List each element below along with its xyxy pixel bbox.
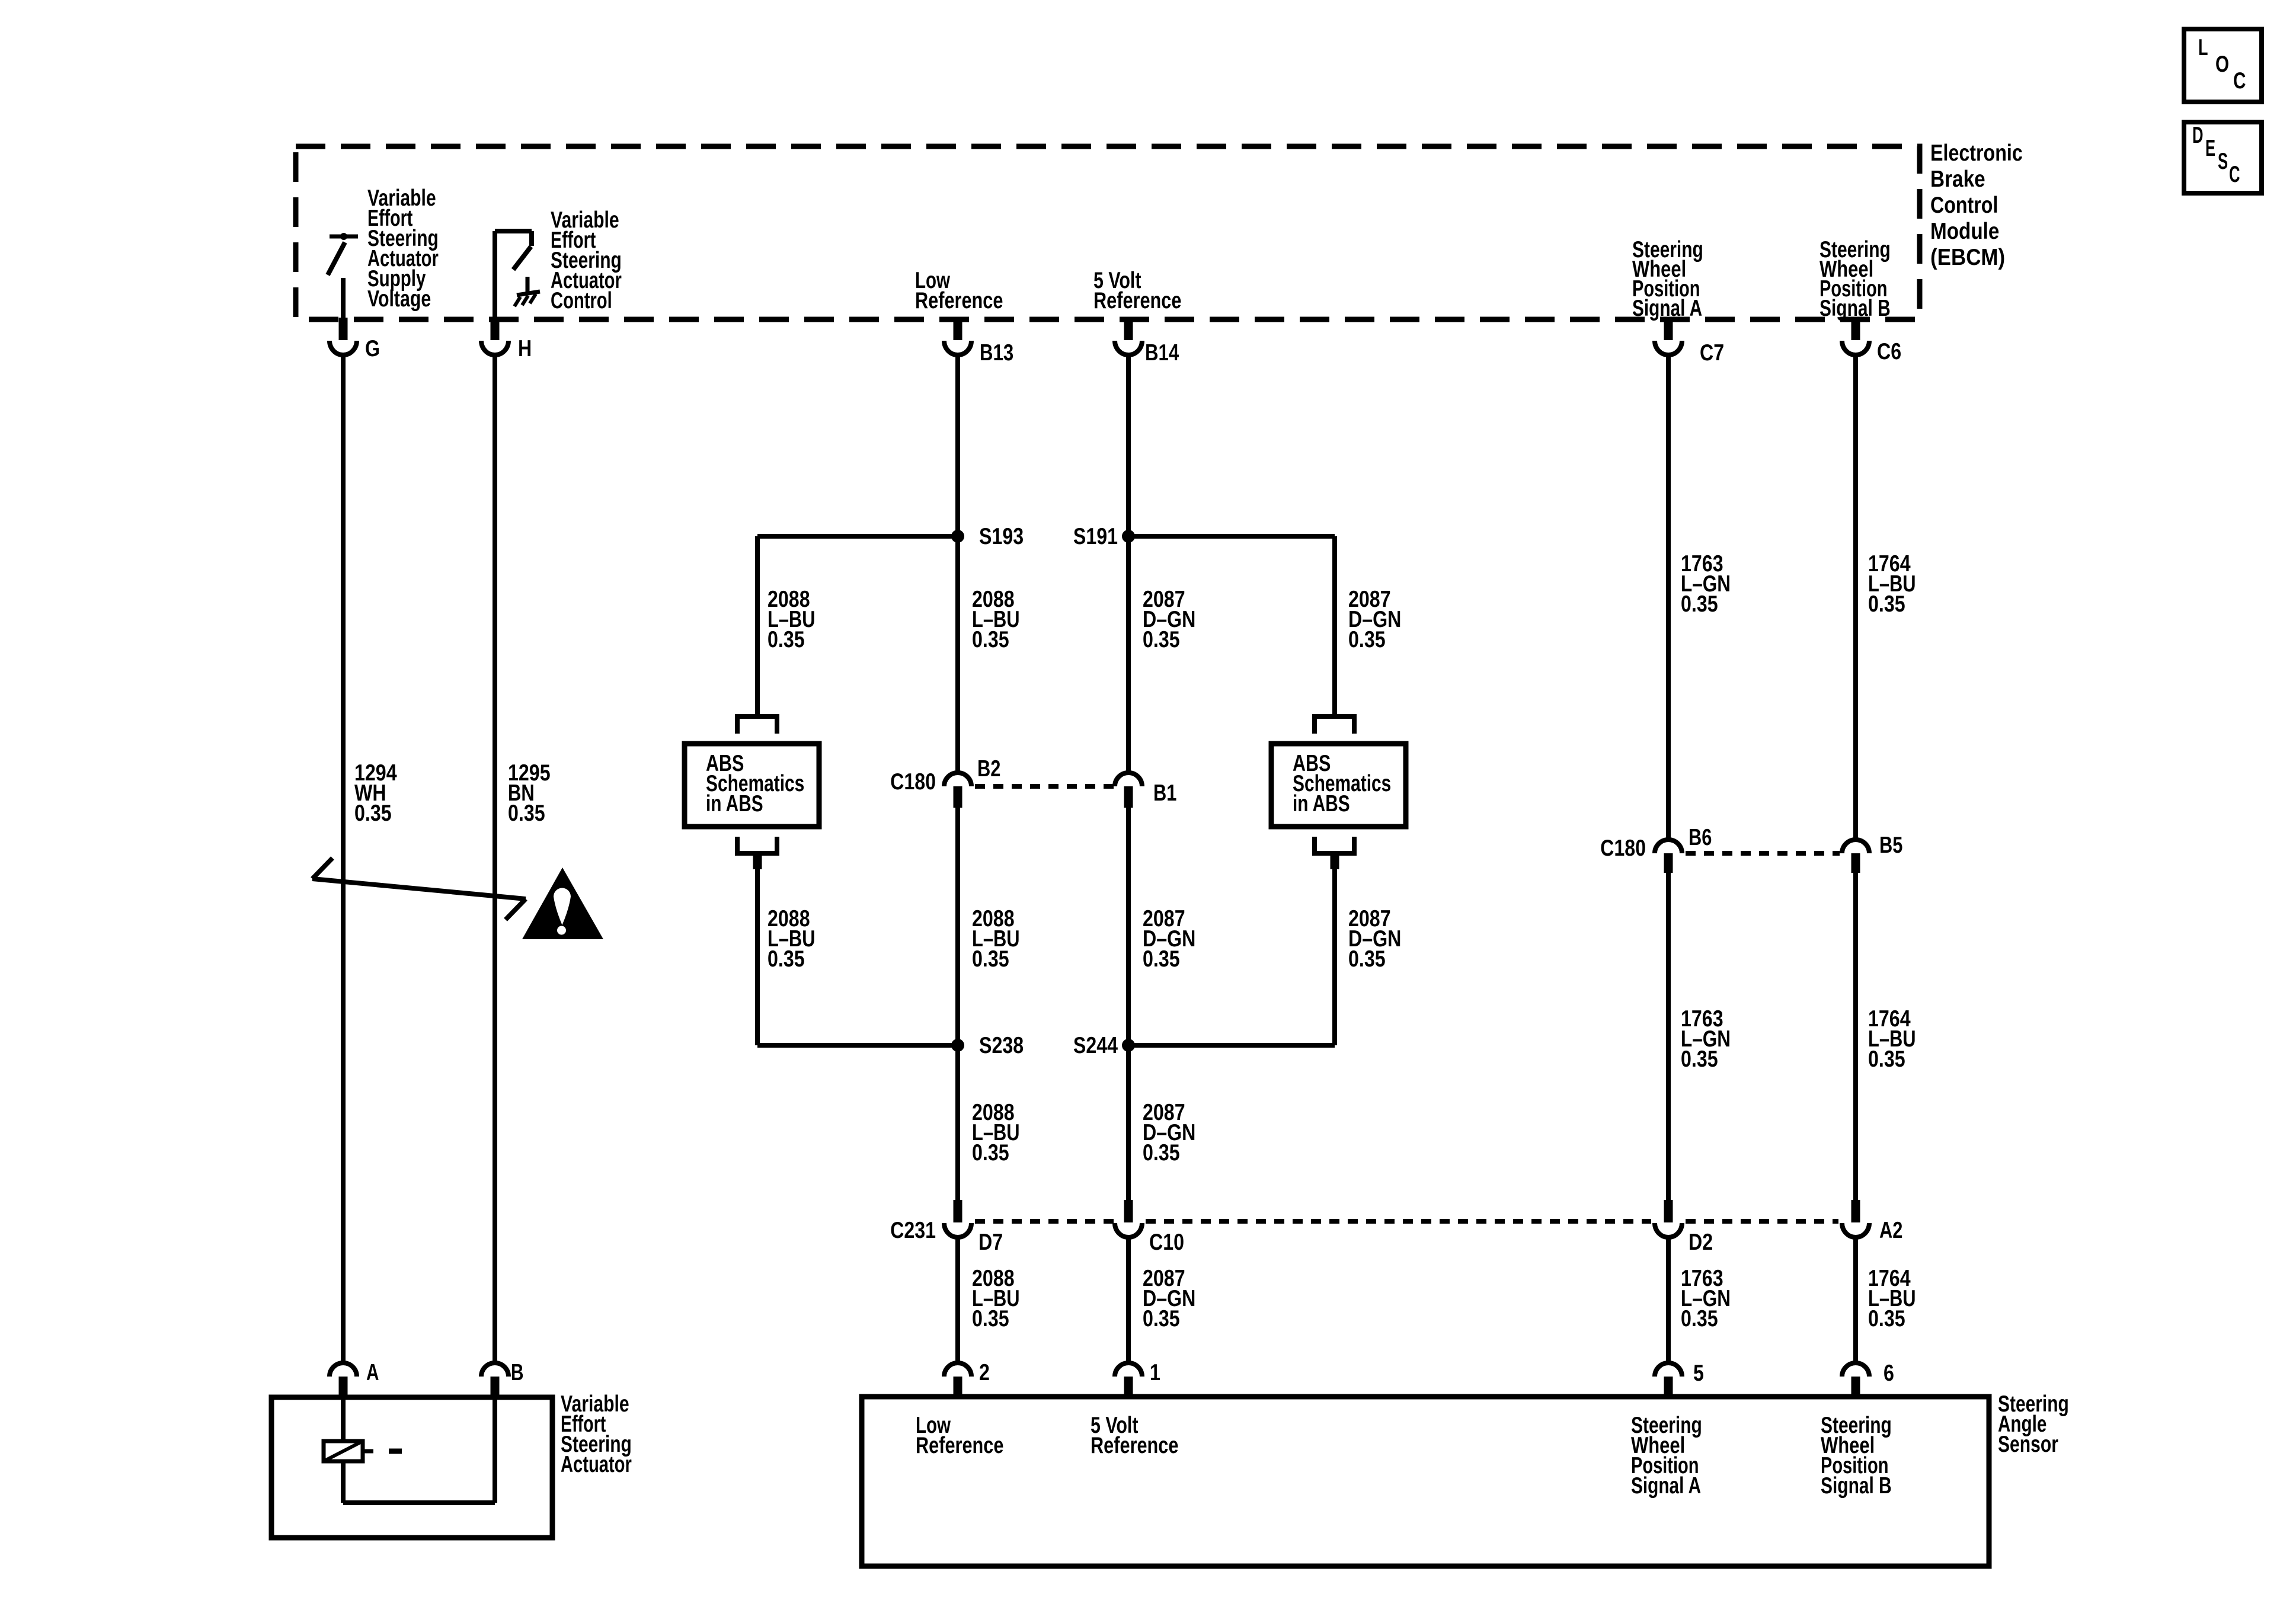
- svg-text:B5: B5: [1879, 833, 1902, 858]
- svg-text:C: C: [2229, 162, 2240, 187]
- svg-text:0.35: 0.35: [1868, 1046, 1905, 1072]
- svg-text:S244: S244: [1073, 1033, 1118, 1058]
- svg-text:Control: Control: [1930, 193, 1998, 218]
- svg-text:in ABS: in ABS: [706, 791, 763, 817]
- svg-text:0.35: 0.35: [1681, 591, 1718, 617]
- svg-text:Reference: Reference: [916, 1433, 1003, 1458]
- svg-text:S191: S191: [1073, 524, 1118, 549]
- svg-text:C7: C7: [1700, 340, 1724, 366]
- svg-text:A2: A2: [1879, 1218, 1902, 1243]
- svg-text:D: D: [2192, 123, 2204, 148]
- svg-text:0.35: 0.35: [1143, 1306, 1180, 1331]
- svg-text:B13: B13: [980, 340, 1013, 366]
- svg-text:C231: C231: [890, 1218, 936, 1243]
- svg-text:Reference: Reference: [1091, 1433, 1178, 1458]
- svg-text:C: C: [2233, 68, 2246, 94]
- svg-text:0.35: 0.35: [508, 801, 545, 826]
- svg-text:2: 2: [979, 1360, 990, 1385]
- svg-text:0.35: 0.35: [1868, 1306, 1905, 1331]
- svg-text:O: O: [2215, 52, 2229, 77]
- svg-text:B14: B14: [1145, 340, 1179, 366]
- svg-text:0.35: 0.35: [972, 946, 1009, 972]
- svg-text:in ABS: in ABS: [1293, 791, 1350, 817]
- svg-text:0.35: 0.35: [1348, 946, 1386, 972]
- svg-text:(EBCM): (EBCM): [1930, 245, 2005, 270]
- svg-text:Brake: Brake: [1930, 167, 1985, 192]
- svg-text:B: B: [511, 1360, 524, 1385]
- svg-text:L: L: [2198, 35, 2208, 60]
- svg-text:0.35: 0.35: [1143, 627, 1180, 652]
- svg-text:B1: B1: [1153, 780, 1176, 806]
- svg-text:C6: C6: [1877, 339, 1901, 364]
- svg-text:0.35: 0.35: [1681, 1046, 1718, 1072]
- svg-text:Voltage: Voltage: [367, 286, 431, 312]
- svg-text:Reference: Reference: [1093, 288, 1181, 313]
- svg-text:Module: Module: [1930, 219, 1999, 244]
- svg-text:S238: S238: [979, 1033, 1024, 1058]
- svg-text:0.35: 0.35: [768, 627, 805, 652]
- svg-text:Actuator: Actuator: [561, 1452, 632, 1477]
- svg-text:C180: C180: [1600, 836, 1646, 861]
- svg-text:A: A: [366, 1360, 379, 1385]
- svg-text:E: E: [2205, 136, 2215, 161]
- svg-text:0.35: 0.35: [972, 627, 1009, 652]
- svg-text:C180: C180: [890, 769, 936, 795]
- svg-text:5: 5: [1693, 1361, 1704, 1386]
- svg-text:S: S: [2218, 149, 2228, 174]
- svg-text:B6: B6: [1689, 825, 1712, 850]
- svg-text:Signal B: Signal B: [1821, 1473, 1892, 1499]
- svg-text:Electronic: Electronic: [1930, 140, 2023, 166]
- svg-text:0.35: 0.35: [972, 1140, 1009, 1166]
- svg-text:0.35: 0.35: [1143, 1140, 1180, 1166]
- svg-text:0.35: 0.35: [1868, 591, 1905, 617]
- svg-text:S193: S193: [979, 524, 1024, 549]
- svg-text:6: 6: [1884, 1361, 1894, 1386]
- svg-text:Signal A: Signal A: [1632, 296, 1702, 321]
- svg-text:H: H: [518, 336, 532, 361]
- svg-text:G: G: [365, 336, 380, 361]
- svg-text:0.35: 0.35: [1681, 1306, 1718, 1331]
- svg-text:0.35: 0.35: [768, 946, 805, 972]
- svg-text:0.35: 0.35: [1348, 627, 1386, 652]
- svg-text:D7: D7: [978, 1230, 1003, 1255]
- svg-text:0.35: 0.35: [972, 1306, 1009, 1331]
- svg-text:0.35: 0.35: [354, 801, 392, 826]
- svg-text:Reference: Reference: [915, 288, 1003, 313]
- svg-text:Signal A: Signal A: [1631, 1473, 1701, 1499]
- svg-text:0.35: 0.35: [1143, 946, 1180, 972]
- svg-text:Control: Control: [551, 288, 612, 313]
- svg-text:D2: D2: [1689, 1230, 1713, 1255]
- svg-text:B2: B2: [977, 756, 1000, 782]
- svg-text:1: 1: [1150, 1360, 1160, 1385]
- svg-text:C10: C10: [1149, 1230, 1184, 1255]
- svg-text:Signal B: Signal B: [1819, 296, 1891, 321]
- svg-text:Sensor: Sensor: [1998, 1432, 2058, 1457]
